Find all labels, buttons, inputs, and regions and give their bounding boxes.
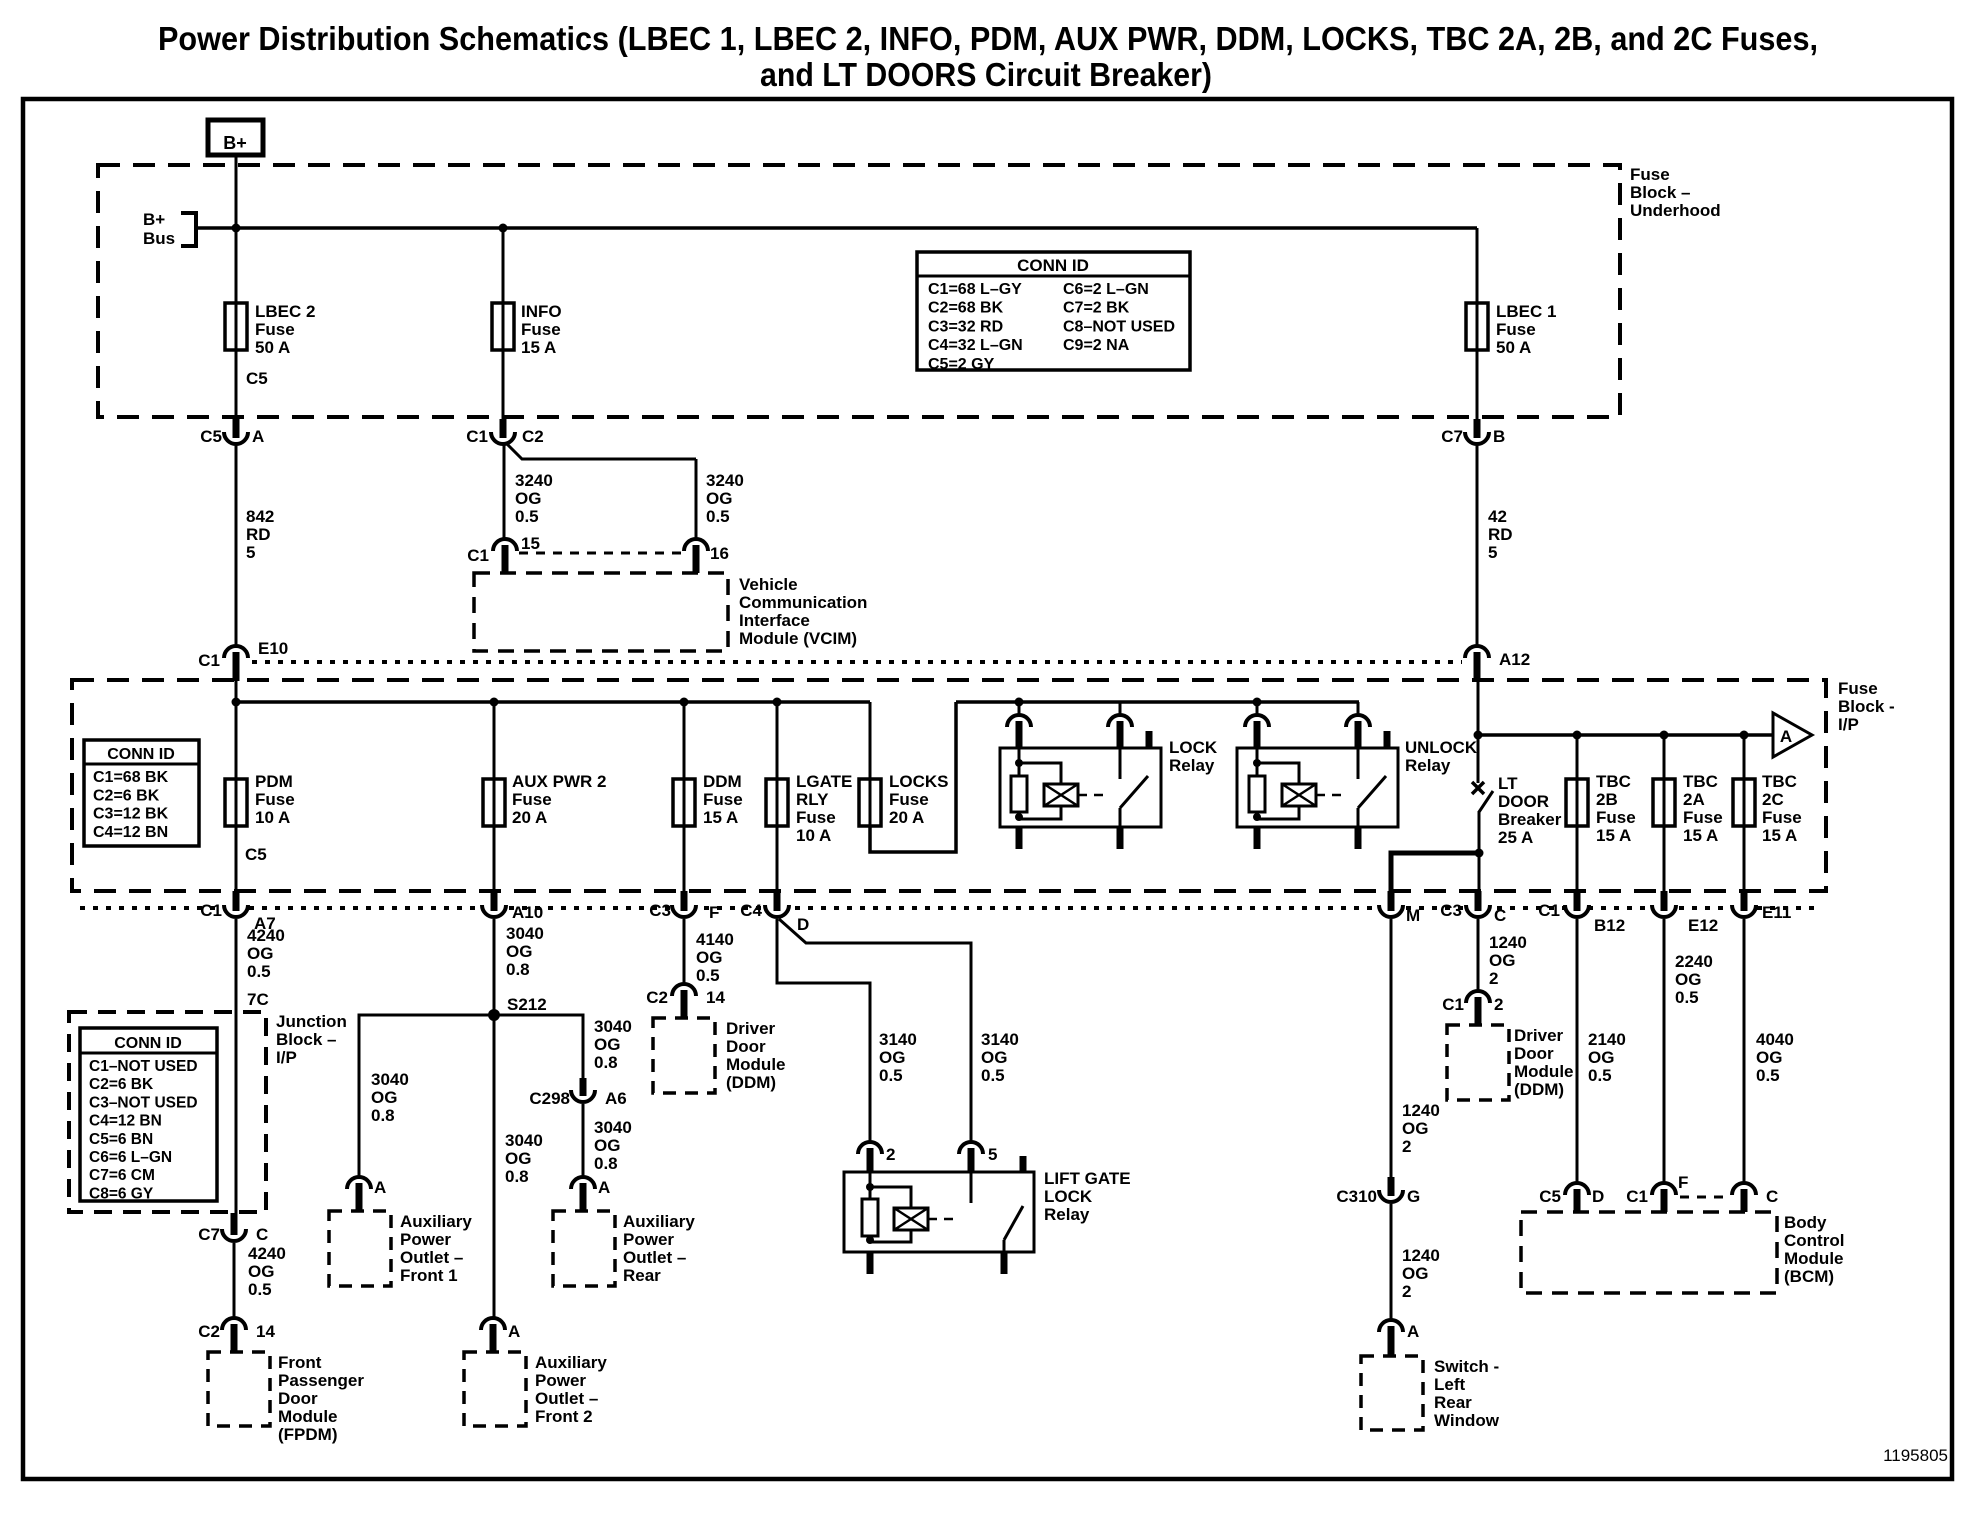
svg-text:0.5: 0.5 [981, 1066, 1005, 1085]
svg-text:A: A [252, 427, 264, 446]
svg-text:Fuse: Fuse [796, 808, 836, 827]
junction feed bus / UNLOCK relay coil [1253, 698, 1262, 707]
svg-text:E11: E11 [1762, 903, 1791, 922]
junction TBC 2C tap [1740, 731, 1749, 740]
svg-text:0.8: 0.8 [371, 1106, 395, 1125]
svg-text:C5: C5 [246, 369, 268, 388]
svg-text:C1: C1 [200, 901, 222, 920]
wire S212 down branch to aux outlet front 2 [493, 1015, 496, 1320]
connector C3 C [1466, 905, 1490, 917]
fuse TBC 2A 15 A [1653, 779, 1675, 826]
svg-text:15 A: 15 A [521, 338, 556, 357]
svg-text:OG: OG [1402, 1119, 1428, 1138]
svg-text:Rear: Rear [1434, 1393, 1472, 1412]
UNLOCK relay coil circuit [1256, 748, 1259, 820]
connector A at aux outlet front 2 [481, 1318, 505, 1330]
svg-text:Outlet –: Outlet – [623, 1248, 686, 1267]
svg-text:D: D [797, 915, 809, 934]
svg-text:LT: LT [1498, 774, 1518, 793]
svg-text:Front 1: Front 1 [400, 1266, 458, 1285]
svg-text:RD: RD [1488, 525, 1513, 544]
svg-text:C8=6 GY: C8=6 GY [89, 1185, 154, 1202]
svg-text:16: 16 [710, 544, 729, 563]
svg-text:10 A: 10 A [796, 826, 831, 845]
svg-text:1240: 1240 [1402, 1246, 1440, 1265]
svg-text:C1=68 BK: C1=68 BK [93, 769, 169, 786]
wire C3 C to DDM right [1477, 919, 1480, 992]
UNLOCK relay box [1237, 748, 1398, 827]
svg-text:A10: A10 [512, 903, 543, 922]
svg-text:Left: Left [1434, 1375, 1466, 1394]
fuse LOCKS 20 A [859, 779, 881, 826]
connector E11 [1732, 905, 1756, 917]
svg-text:2240: 2240 [1675, 952, 1713, 971]
wire 4040 OG 0.5 from E11 to BCM [1743, 919, 1746, 1185]
LOCK relay coil ground stub [1016, 827, 1023, 849]
wire LBEC 2 fuse to connector C5 A [235, 349, 238, 420]
UNLOCK relay switch [1357, 748, 1360, 779]
svg-text:F: F [709, 903, 719, 922]
svg-text:OG: OG [1489, 951, 1515, 970]
junction bus / DDM fuse [680, 698, 689, 707]
svg-text:15 A: 15 A [1683, 826, 1718, 845]
svg-text:Fuse: Fuse [1496, 320, 1536, 339]
svg-text:B+: B+ [143, 210, 165, 229]
junction TBC 2A tap [1660, 731, 1669, 740]
wire 4240 OG 0.5 to FPDM [233, 1243, 236, 1320]
svg-text:Auxiliary: Auxiliary [623, 1212, 695, 1231]
svg-text:TBC: TBC [1596, 772, 1631, 791]
wire DDM fuse to connector C3 F [683, 826, 686, 892]
svg-text:LIFT GATE: LIFT GATE [1044, 1169, 1131, 1188]
fuse AUX PWR 2 20 A [483, 779, 505, 826]
connector 5 at lift gate lock relay [959, 1142, 983, 1154]
wire LBEC 1 fuse to connector C7 B [1476, 349, 1479, 420]
svg-text:Module: Module [278, 1407, 338, 1426]
wire M to C310 G [1390, 919, 1393, 1184]
svg-text:B12: B12 [1594, 916, 1625, 935]
svg-text:Module: Module [1784, 1249, 1844, 1268]
svg-text:Fuse: Fuse [1596, 808, 1636, 827]
svg-text:Power: Power [535, 1371, 586, 1390]
UNLOCK relay coil pin connector [1256, 702, 1259, 716]
wire AUX PWR 2 fuse to connector A10 [493, 826, 496, 892]
svg-text:C6=6 L–GN: C6=6 L–GN [89, 1149, 172, 1166]
svg-text:Driver: Driver [726, 1019, 776, 1038]
svg-text:Fuse: Fuse [1838, 679, 1878, 698]
svg-text:C4=12 BN: C4=12 BN [89, 1113, 162, 1130]
svg-text:3240: 3240 [515, 471, 553, 490]
svg-text:14: 14 [256, 1322, 275, 1341]
svg-text:50 A: 50 A [1496, 338, 1531, 357]
svg-text:G: G [1407, 1187, 1420, 1206]
svg-text:4240: 4240 [247, 926, 285, 945]
svg-text:CONN ID: CONN ID [1017, 256, 1089, 275]
svg-text:Relay: Relay [1044, 1205, 1090, 1224]
connector C2 14 at FPDM [222, 1318, 246, 1330]
svg-text:C1: C1 [1538, 901, 1560, 920]
connector E12 [1652, 905, 1676, 917]
svg-text:LGATE: LGATE [796, 772, 852, 791]
svg-text:Block –: Block – [276, 1030, 336, 1049]
front passenger door module FPDM dashed box [208, 1352, 270, 1426]
UNLOCK relay coil ground stub [1254, 827, 1261, 849]
svg-text:I/P: I/P [1838, 715, 1859, 734]
svg-text:20 A: 20 A [512, 808, 547, 827]
svg-text:Body: Body [1784, 1213, 1827, 1232]
fuse LBEC 1 50 A [1466, 303, 1488, 350]
LOCK relay box [1000, 748, 1161, 827]
svg-text:Door: Door [726, 1037, 766, 1056]
svg-text:INFO: INFO [521, 302, 562, 321]
svg-text:50 A: 50 A [255, 338, 290, 357]
svg-text:15 A: 15 A [1596, 826, 1631, 845]
svg-text:2A: 2A [1683, 790, 1705, 809]
svg-text:OG: OG [981, 1048, 1007, 1067]
wire B+ bus [196, 226, 1477, 230]
wire 4140 OG 0.5 from C3 F to DDM [683, 919, 686, 985]
svg-text:OG: OG [371, 1088, 397, 1107]
svg-text:OG: OG [1756, 1048, 1782, 1067]
svg-text:B: B [1493, 427, 1505, 446]
svg-text:20 A: 20 A [889, 808, 924, 827]
connector C1 E10 [224, 646, 248, 658]
svg-text:0.8: 0.8 [594, 1154, 618, 1173]
arrow A to fuse block I/P sheet [1773, 713, 1812, 757]
junction bus / AUX PWR 2 [490, 698, 499, 707]
fuse INFO 15 A [492, 303, 514, 350]
svg-text:C310: C310 [1336, 1187, 1377, 1206]
svg-text:3140: 3140 [981, 1030, 1019, 1049]
svg-text:C6=2 L–GN: C6=2 L–GN [1063, 281, 1149, 298]
svg-text:842: 842 [246, 507, 274, 526]
connector C at BCM [1732, 1183, 1756, 1195]
connector C1 F at BCM [1652, 1183, 1676, 1195]
svg-text:C9=2 NA: C9=2 NA [1063, 337, 1130, 354]
driver door module DDM dashed box left [653, 1018, 715, 1093]
svg-text:Fuse: Fuse [703, 790, 743, 809]
lift gate lock relay coil stub [867, 1252, 874, 1274]
svg-text:C5: C5 [245, 845, 267, 864]
svg-text:0.5: 0.5 [515, 507, 539, 526]
lift gate lock relay switch [970, 1172, 973, 1203]
svg-text:Control: Control [1784, 1231, 1844, 1250]
CONN ID table underhood [917, 252, 1190, 370]
svg-text:C298: C298 [529, 1089, 570, 1108]
svg-text:0.8: 0.8 [505, 1167, 529, 1186]
svg-text:Driver: Driver [1514, 1026, 1564, 1045]
svg-text:Fuse: Fuse [1683, 808, 1723, 827]
svg-text:25 A: 25 A [1498, 828, 1533, 847]
svg-text:B+: B+ [223, 133, 247, 153]
junction B+ bus / INFO feed [499, 224, 508, 233]
connector A10 [482, 905, 506, 917]
wire bus to AUX PWR 2 fuse [493, 702, 496, 779]
svg-text:E10: E10 [258, 639, 288, 658]
svg-text:Front 2: Front 2 [535, 1407, 593, 1426]
fuse block - I/P dashed box [72, 680, 1826, 891]
junction A12 / TBC feed [1474, 731, 1483, 740]
svg-text:C2=6 BK: C2=6 BK [93, 787, 160, 804]
driver door module DDM dashed box right [1447, 1025, 1509, 1100]
svg-text:OG: OG [594, 1035, 620, 1054]
svg-text:0.8: 0.8 [506, 960, 530, 979]
svg-text:C2: C2 [198, 1322, 220, 1341]
svg-text:LBEC 1: LBEC 1 [1496, 302, 1556, 321]
connector C1 A7 [224, 905, 248, 917]
wire breaker to connector C3 C [1478, 853, 1481, 892]
svg-text:LOCK: LOCK [1169, 738, 1218, 757]
svg-text:0.5: 0.5 [1756, 1066, 1780, 1085]
svg-text:C4=32 L–GN: C4=32 L–GN [928, 337, 1023, 354]
svg-text:C7: C7 [1441, 427, 1463, 446]
fuse TBC 2B 15 A [1566, 779, 1588, 826]
junction feed bus / LOCK relay coil [1015, 698, 1024, 707]
svg-text:7C: 7C [247, 990, 269, 1009]
wire TBC 2C fuse to connector E11 [1743, 826, 1746, 892]
svg-text:C2: C2 [522, 427, 544, 446]
svg-text:Passenger: Passenger [278, 1371, 364, 1390]
svg-text:15 A: 15 A [703, 808, 738, 827]
svg-text:C3=12 BK: C3=12 BK [93, 806, 169, 823]
svg-text:C1=68 L–GY: C1=68 L–GY [928, 281, 1022, 298]
svg-text:5: 5 [246, 543, 255, 562]
svg-text:C4: C4 [740, 901, 762, 920]
svg-text:C5: C5 [1539, 1187, 1561, 1206]
lift gate lock relay NO contact stub [1020, 1156, 1027, 1172]
svg-text:Fuse: Fuse [255, 320, 295, 339]
wire 2240 OG 0.5 from E12 to BCM [1663, 919, 1666, 1185]
svg-text:DDM: DDM [703, 772, 742, 791]
wire PDM fuse to connector C1 A7 [235, 826, 238, 892]
svg-text:Module (VCIM): Module (VCIM) [739, 629, 857, 648]
LOCK relay coil pin connector [1018, 702, 1021, 716]
svg-text:C: C [256, 1225, 268, 1244]
svg-text:C: C [1766, 1187, 1778, 1206]
svg-text:C1: C1 [1442, 995, 1464, 1014]
fuse LGATE RLY 10 A [766, 779, 788, 826]
svg-text:Underhood: Underhood [1630, 201, 1721, 220]
connector 2 at lift gate lock relay [858, 1142, 882, 1154]
svg-text:C5=2 GY: C5=2 GY [928, 356, 995, 373]
svg-text:C2=6 BK: C2=6 BK [89, 1076, 154, 1093]
wire 842 RD 5 from C5 A to E10 [235, 444, 238, 649]
CONN ID table I/P [84, 740, 199, 846]
dashed link between BCM connectors [1680, 1196, 1728, 1199]
B+ bus end bracket [181, 213, 196, 246]
svg-text:OG: OG [247, 944, 273, 963]
wire breaker to connector M [1391, 853, 1479, 892]
svg-text:LBEC 2: LBEC 2 [255, 302, 315, 321]
B+ power terminal box [208, 120, 263, 155]
wire 3240 OG 0.5 left branch from C1 C2 [503, 444, 506, 540]
svg-text:3040: 3040 [594, 1118, 632, 1137]
main I/P bus wire [236, 700, 870, 704]
wire S212 left branch to aux outlet front 1 [359, 1015, 494, 1178]
svg-text:4140: 4140 [696, 930, 734, 949]
svg-text:AUX PWR 2: AUX PWR 2 [512, 772, 606, 791]
connector C5 D at BCM [1565, 1183, 1589, 1195]
wire bus to LBEC 1 fuse [1476, 228, 1479, 303]
switch left rear window dashed box [1361, 1356, 1423, 1430]
svg-text:(BCM): (BCM) [1784, 1267, 1834, 1286]
svg-text:OG: OG [696, 948, 722, 967]
svg-text:UNLOCK: UNLOCK [1405, 738, 1478, 757]
wire bus to LGATE RLY fuse [776, 702, 779, 779]
wire LOCKS fuse to relay feed bus [870, 702, 956, 852]
wire from B+ terminal to B+ bus [235, 155, 238, 228]
svg-text:15: 15 [521, 534, 540, 553]
svg-text:PDM: PDM [255, 772, 293, 791]
svg-text:A: A [508, 1322, 520, 1341]
svg-text:TBC: TBC [1762, 772, 1797, 791]
svg-text:1240: 1240 [1489, 933, 1527, 952]
auxiliary power outlet front 2 dashed box [464, 1352, 526, 1426]
circuit breaker LT DOOR 25 A [1472, 782, 1484, 794]
fuse DDM 15 A [673, 779, 695, 826]
svg-text:Fuse: Fuse [521, 320, 561, 339]
svg-text:OG: OG [1588, 1048, 1614, 1067]
TBC feed wire [1478, 733, 1773, 737]
svg-text:2: 2 [1402, 1282, 1411, 1301]
svg-text:C8–NOT USED: C8–NOT USED [1063, 318, 1175, 335]
junction breaker output [1475, 849, 1484, 858]
svg-text:3240: 3240 [706, 471, 744, 490]
svg-text:DOOR: DOOR [1498, 792, 1549, 811]
svg-text:M: M [1406, 906, 1420, 925]
fuse TBC 2C 15 A [1733, 779, 1755, 826]
junction bus / LGATE RLY fuse [773, 698, 782, 707]
svg-text:0.5: 0.5 [706, 507, 730, 526]
svg-text:14: 14 [706, 988, 725, 1007]
svg-text:LOCKS: LOCKS [889, 772, 949, 791]
fuse LBEC 2 50 A [225, 303, 247, 350]
svg-text:OG: OG [594, 1136, 620, 1155]
wire 3040 OG 0.8 from A6 to aux outlet rear [582, 1104, 585, 1178]
svg-text:OG: OG [506, 942, 532, 961]
svg-text:0.5: 0.5 [696, 966, 720, 985]
wire 4240 OG 0.5 from A7 to junction block [235, 919, 238, 1222]
svg-text:F: F [1678, 1173, 1688, 1192]
wire 3240 OG 0.5 right branch from C1 C2 [507, 444, 696, 459]
svg-text:E12: E12 [1688, 916, 1718, 935]
wire E10 to main I/P bus [235, 681, 238, 779]
svg-text:OG: OG [248, 1262, 274, 1281]
svg-text:4040: 4040 [1756, 1030, 1794, 1049]
connector C7 B [1465, 432, 1489, 444]
svg-text:1240: 1240 [1402, 1101, 1440, 1120]
wire TBC 2B tap to fuse [1576, 735, 1579, 779]
UNLOCK relay switch output stub [1355, 827, 1362, 849]
svg-text:S212: S212 [507, 995, 547, 1014]
svg-text:3040: 3040 [594, 1017, 632, 1036]
svg-text:Fuse: Fuse [512, 790, 552, 809]
wire 3040 OG 0.8 from A10 to S212 [493, 919, 496, 1015]
connector C1 2 at DDM right [1466, 991, 1490, 1003]
relay feed bus wire [956, 700, 1359, 704]
connector C298 A6 [571, 1090, 595, 1102]
svg-text:0.8: 0.8 [594, 1053, 618, 1072]
wire bus to INFO fuse [502, 228, 505, 303]
svg-text:Outlet –: Outlet – [535, 1389, 598, 1408]
svg-text:3040: 3040 [371, 1070, 409, 1089]
LOCK relay NO contact stub [1146, 731, 1153, 748]
svg-text:C7: C7 [198, 1225, 220, 1244]
svg-text:and LT DOORS Circuit Breaker): and LT DOORS Circuit Breaker) [760, 56, 1212, 93]
connector A at aux outlet front 1 [347, 1177, 371, 1189]
LOCK relay switch output stub [1117, 827, 1124, 849]
svg-text:Auxiliary: Auxiliary [400, 1212, 472, 1231]
svg-text:A: A [1407, 1322, 1419, 1341]
svg-text:Interface: Interface [739, 611, 810, 630]
fuse PDM 10 A [225, 779, 247, 826]
connector C7 C [222, 1229, 246, 1241]
auxiliary power outlet rear dashed box [553, 1211, 615, 1286]
wire C310 G to switch left rear window [1390, 1204, 1393, 1322]
svg-text:2140: 2140 [1588, 1030, 1626, 1049]
CONN ID table junction block [80, 1028, 217, 1201]
svg-text:0.5: 0.5 [1588, 1066, 1612, 1085]
svg-text:Vehicle: Vehicle [739, 575, 798, 594]
svg-text:0.5: 0.5 [247, 962, 271, 981]
connector C310 G [1379, 1190, 1403, 1202]
wire bus to DDM fuse [683, 702, 686, 779]
connector C1 C2 [491, 432, 515, 444]
svg-text:C3–NOT USED: C3–NOT USED [89, 1094, 198, 1111]
junction TBC 2B tap [1573, 731, 1582, 740]
svg-text:CONN ID: CONN ID [107, 746, 175, 763]
svg-text:3040: 3040 [506, 924, 544, 943]
svg-text:CONN ID: CONN ID [114, 1035, 182, 1052]
svg-text:I/P: I/P [276, 1048, 297, 1067]
svg-text:C2: C2 [646, 988, 668, 1007]
wire S212 right branch to C298 A6 [494, 1015, 583, 1080]
svg-text:Bus: Bus [143, 229, 175, 248]
svg-text:0.5: 0.5 [1675, 988, 1699, 1007]
connector C4 D [765, 905, 789, 917]
wire C4 D to lift gate relay pin 5 [779, 919, 971, 1144]
svg-text:Breaker: Breaker [1498, 810, 1562, 829]
svg-text:A: A [598, 1178, 610, 1197]
svg-text:1195805: 1195805 [1883, 1446, 1948, 1465]
svg-text:Module: Module [726, 1055, 786, 1074]
connector C1 15 at VCIM [493, 539, 517, 551]
wire bus to LBEC 2 fuse [235, 228, 238, 303]
svg-text:Module: Module [1514, 1062, 1574, 1081]
svg-text:Junction: Junction [276, 1012, 347, 1031]
wire TBC 2A fuse to connector E12 [1663, 826, 1666, 892]
svg-text:2B: 2B [1596, 790, 1618, 809]
svg-text:RD: RD [246, 525, 271, 544]
svg-text:3140: 3140 [879, 1030, 917, 1049]
svg-text:C7=2 BK: C7=2 BK [1063, 300, 1130, 317]
svg-text:Door: Door [1514, 1044, 1554, 1063]
svg-text:A6: A6 [605, 1089, 627, 1108]
dotted harness line between E10 and A12 [252, 660, 1462, 664]
splice S212 [488, 1009, 500, 1021]
wire A12 to TBC feed junction [1477, 681, 1480, 783]
svg-text:OG: OG [706, 489, 732, 508]
connector A at switch left rear window [1379, 1320, 1403, 1332]
svg-text:Switch -: Switch - [1434, 1357, 1499, 1376]
svg-text:15 A: 15 A [1762, 826, 1797, 845]
svg-text:2C: 2C [1762, 790, 1784, 809]
svg-text:0.5: 0.5 [248, 1280, 272, 1299]
svg-text:TBC: TBC [1683, 772, 1718, 791]
svg-text:Fuse: Fuse [889, 790, 929, 809]
svg-text:OG: OG [515, 489, 541, 508]
UNLOCK relay switch pin connector [1357, 702, 1360, 716]
